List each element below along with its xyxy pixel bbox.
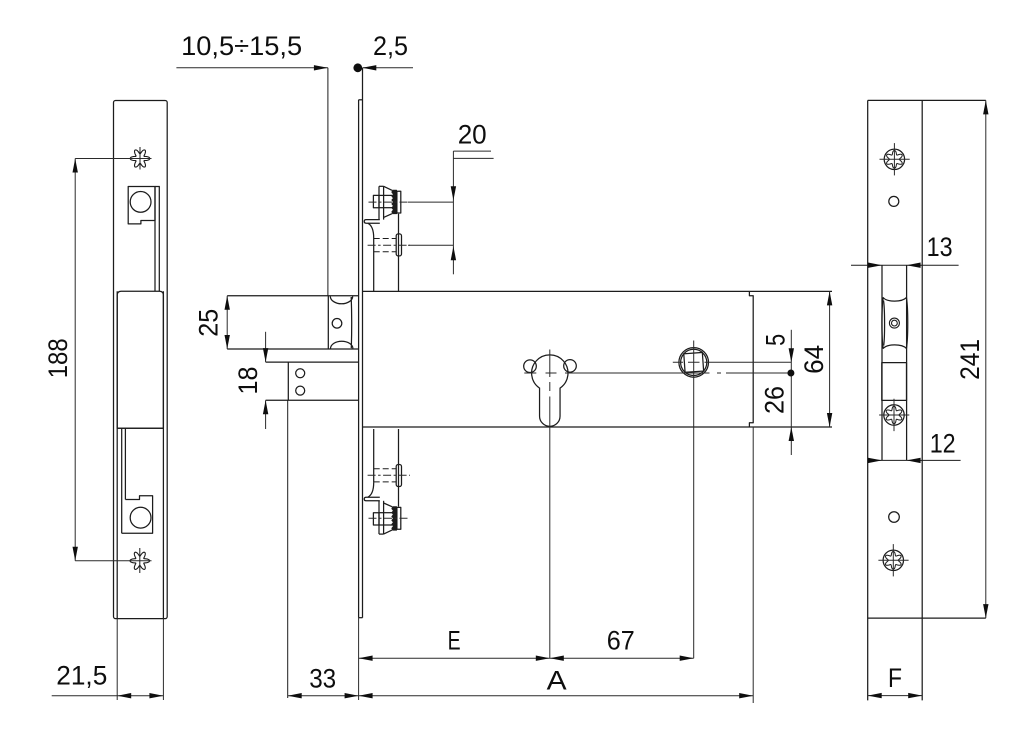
svg-text:21,5: 21,5 (56, 661, 107, 691)
dimension 13 arrow right (tip at channel left) (868, 263, 882, 268)
right view screw 3 torx (886, 551, 902, 569)
extension from top screw axis to 20 dim (408, 201, 453, 203)
left view top latch roller circle (130, 192, 151, 213)
dimension E arrow right / 67 arrow left (bowtie) (536, 656, 550, 661)
follower horizontal centerline (673, 361, 792, 363)
screw shank top line (379, 194, 392, 196)
svg-text:18: 18 (233, 367, 263, 395)
left view top latch guide line a (154, 187, 156, 292)
left view top latch guide line b (158, 187, 160, 292)
svg-text:13: 13 (927, 232, 953, 262)
right view screw 2 circle (884, 405, 904, 425)
mounting box (18) bottom line (266, 399, 359, 401)
screw 1 cross ticks (893, 143, 895, 175)
bracket foot bar (364, 220, 380, 224)
faceplate section bottom tick (359, 617, 363, 619)
spool left crescent (884, 301, 885, 346)
lower mounting bracket with fixing screws (mirrored copy) (364, 429, 410, 534)
mounting box (18) top line (266, 361, 359, 363)
bracket plate top edge (379, 185, 384, 187)
dimension 33 arrow left (288, 693, 302, 698)
datum dot at faceplate top (353, 63, 362, 72)
dimension 33 arrow right / A arrow left (bowtie) (345, 693, 359, 698)
right view screw 3 circle (883, 550, 903, 570)
dimension 5/26 vertical line (790, 330, 792, 455)
mounting box hole upper (296, 369, 305, 378)
lock body top edge (363, 290, 833, 292)
dimension 21,5 arrow right (149, 693, 163, 698)
faceplate right edge (921, 100, 923, 700)
dimension 188 extension line top (75, 158, 151, 160)
latch tongue pin circle (332, 319, 342, 329)
faceplate channel right line (906, 265, 908, 460)
svg-text:26: 26 (759, 386, 789, 414)
faceplate left edge (867, 100, 869, 700)
faceplate 241 end line (868, 617, 986, 619)
left view case left wall (116, 291, 118, 618)
dimension 12 arrow left (907, 458, 921, 463)
svg-text:188: 188 (43, 338, 73, 378)
dimension 188 dimension line (74, 159, 76, 561)
lock body right edge with corner notches (749, 291, 753, 427)
screw head rectangle (373, 195, 379, 207)
bracket channel right line (398, 214, 400, 292)
dimension 241 arrow up (983, 100, 988, 114)
dimension 64 arrow down (827, 413, 832, 427)
dimension 12 arrow right (868, 458, 882, 463)
faceplate top edge (extends to 241 dim) (868, 99, 986, 101)
left view bottom latch roller circle (130, 507, 151, 528)
dimension 20 arrow down (451, 186, 456, 200)
screw 3 cross ticks (892, 544, 894, 576)
svg-text:5: 5 (761, 334, 791, 346)
dimension 241 arrow down (983, 604, 988, 618)
lock body bottom edge (363, 426, 833, 428)
lower screw centerline (368, 244, 410, 246)
dimension 20 vertical line (452, 151, 454, 274)
screw shank bottom line (379, 207, 392, 209)
svg-text:33: 33 (309, 663, 336, 693)
svg-text:2,5: 2,5 (373, 31, 408, 61)
handle follower outer circle (679, 348, 709, 378)
cylinder horizontal centerline (to datum dot) (524, 372, 791, 374)
svg-text:25: 25 (194, 309, 224, 337)
right view screw 1 torx (887, 150, 903, 168)
cylinder ear right (564, 360, 577, 373)
dimension F arrow left (868, 693, 882, 698)
spool center ring inner (892, 320, 898, 326)
dimension 18 arrow down (top) (263, 348, 268, 362)
latch roller front profile (spool) (882, 298, 908, 349)
dimension 25 arrow up (225, 296, 230, 310)
faceplate section right line (362, 68, 364, 618)
bracket curve into channel (368, 223, 374, 238)
euro profile cylinder hole (532, 355, 568, 426)
faceplate section top tick (359, 99, 363, 101)
follower square hole (882, 363, 907, 401)
dimension E/67 line (359, 657, 694, 659)
dimension 25 line (226, 296, 228, 349)
svg-text:E: E (448, 625, 461, 655)
faceplate channel left line (881, 265, 883, 460)
sliding nut rounded rect (396, 234, 401, 256)
dimension 26 arrow up (below body) (789, 427, 794, 441)
dimension 5 arrow down (789, 348, 794, 362)
hidden adjusting screw lower dashed line (374, 251, 397, 253)
backset arrow (points right) (314, 65, 328, 70)
dimension E arrow left (359, 656, 373, 661)
svg-text:A: A (547, 666, 567, 696)
dimension F arrow right (908, 693, 922, 698)
left view top fixing screw (torx star) (130, 150, 150, 167)
right view small hole lower (889, 512, 900, 523)
2,5 arrow (points left) (362, 65, 376, 70)
bracket plate line b (383, 186, 385, 219)
right view small hole upper (889, 196, 899, 206)
left view top latch box (128, 187, 155, 224)
latch tongue side profile (328, 296, 353, 349)
dimension 241 line (985, 100, 987, 618)
mounting box hole lower (296, 386, 305, 395)
dimension 13 arrow left (tip at channel right) (907, 263, 921, 268)
bracket channel left line (373, 238, 375, 291)
cylinder vertical centerline (549, 350, 551, 659)
left view middle case box (117, 291, 163, 428)
dimension 188 arrow up (73, 159, 78, 173)
door edge reference line (backset extension) (327, 68, 329, 296)
bracket plate line a (378, 186, 380, 219)
dimension 33/A line (288, 695, 754, 697)
handle follower inner circle (681, 349, 707, 375)
svg-text:67: 67 (607, 625, 635, 655)
door leaf left line (33 extension) (287, 400, 289, 698)
mounting box (18) left edge (287, 362, 289, 400)
extension: faceplate to bottom dims (358, 618, 360, 700)
dimension 25 arrow down (225, 335, 230, 349)
left view top screw vertical centerline (139, 147, 141, 170)
dimension 18 arrow up (bottom) (263, 400, 268, 414)
threaded block (hatched) (392, 190, 397, 214)
svg-text:64: 64 (799, 345, 829, 374)
left view outer faceplate rectangle (114, 101, 168, 619)
dimension F line (868, 695, 923, 697)
extension from lower screw axis to 20 dim (408, 244, 453, 246)
dimension 21,5 extension line right (162, 619, 164, 700)
svg-text:12: 12 (930, 428, 956, 458)
follower vertical centerline (693, 341, 695, 659)
faceplate section left line (358, 100, 360, 618)
dimension 21,5 extension line left (116, 619, 118, 700)
left view deadbolt channel line b (124, 428, 126, 499)
handle follower square (684, 352, 704, 372)
svg-text:F: F (888, 663, 902, 693)
dimension 67 arrow right (680, 656, 694, 661)
dimension 188 arrow down (73, 547, 78, 561)
datum dot at cylinder axis right (787, 370, 794, 377)
left view bottom screw vertical centerline (139, 548, 141, 573)
dimension 21,5 arrow left (117, 693, 131, 698)
dimension 64 line (829, 291, 831, 427)
faceplate section line bottom (12) (868, 459, 961, 461)
left view bottom latch box (122, 496, 153, 534)
dimension 64 arrow up (827, 291, 832, 305)
svg-text:20: 20 (458, 120, 487, 150)
faceplate section line top (13) (851, 264, 959, 266)
screw 2 cross ticks (893, 399, 895, 431)
left view deadbolt channel line a (121, 428, 123, 533)
dimension 20 shelf lower (453, 157, 493, 159)
bracket flare bottom slant (384, 214, 392, 218)
dimension A arrow right (739, 693, 753, 698)
hidden adjusting screw upper dashed line (374, 238, 397, 240)
left view bottom fixing screw (torx star) (130, 552, 150, 569)
dimension 20 shelf upper (453, 150, 491, 152)
right view screw 2 torx (886, 406, 902, 424)
upper mounting bracket with fixing screws (364, 186, 410, 291)
washer plate (397, 191, 401, 213)
backset leader line (10,5-15,5) (176, 67, 328, 69)
left view case right wall (162, 291, 164, 618)
left view case divider line (117, 427, 163, 429)
dimension 188 extension line bottom (75, 560, 151, 562)
bracket flare top slant (384, 186, 392, 190)
spool center ring outer (889, 318, 899, 328)
svg-text:241: 241 (955, 339, 985, 380)
dimension 21,5 leader line (52, 695, 164, 697)
faceplate thickness leader (2,5) (363, 67, 414, 69)
dimension 20 arrow up (451, 246, 456, 260)
right view screw 1 circle (884, 149, 904, 169)
dimension 18 approach top (265, 332, 267, 362)
latch channel bottom line (227, 348, 358, 350)
dimension 18 approach bottom (265, 400, 267, 429)
cylinder ear left (524, 360, 537, 373)
latch channel top line (227, 295, 358, 297)
svg-text:10,5÷15,5: 10,5÷15,5 (181, 31, 302, 61)
left view top latch box top edge tick (155, 186, 160, 188)
extension: body right corner to A dim (752, 427, 754, 703)
top screw centerline (369, 201, 411, 203)
